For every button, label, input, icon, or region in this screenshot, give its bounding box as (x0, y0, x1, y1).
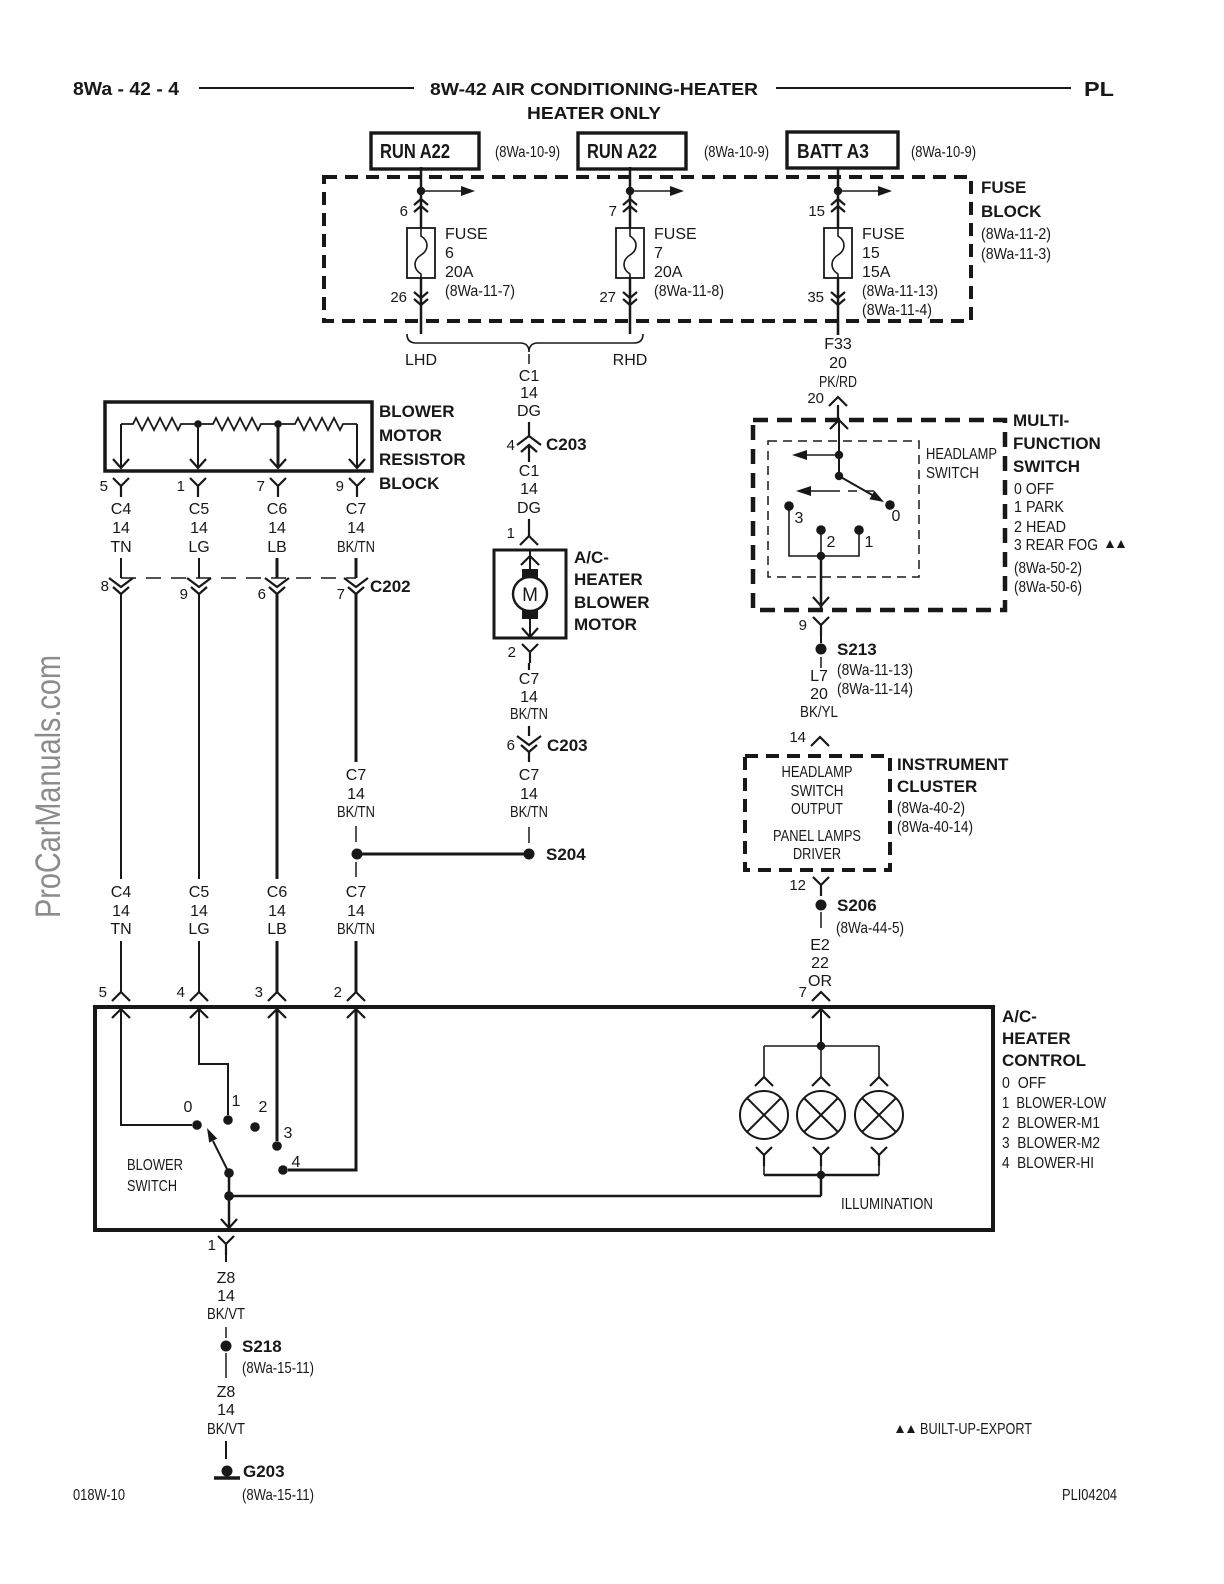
wire fuse 7 to RHD (629, 278, 632, 334)
svg-text:3 REAR FOG: 3 REAR FOG (1014, 537, 1098, 554)
svg-text:1: 1 (208, 1237, 216, 1254)
svg-text:SWITCH: SWITCH (127, 1178, 177, 1195)
wire col4 run to S204 (337, 594, 375, 842)
connector A/C control pin 4 (177, 984, 208, 1018)
svg-text:2 BLOWER-M1: 2 BLOWER-M1 (1002, 1115, 1100, 1132)
svg-text:A/C-: A/C- (574, 548, 609, 567)
svg-text:(8Wa-10-9): (8Wa-10-9) (704, 144, 769, 161)
svg-text:BK/TN: BK/TN (510, 804, 548, 821)
svg-text:6: 6 (258, 586, 266, 603)
wire Z8 14 BK/VT upper (207, 1255, 245, 1338)
svg-text:14: 14 (112, 520, 130, 537)
svg-text:14: 14 (347, 786, 365, 803)
svg-text:8Wa - 42 - 4: 8Wa - 42 - 4 (73, 79, 179, 99)
svg-text:C1: C1 (519, 368, 540, 385)
svg-text:26: 26 (390, 289, 407, 306)
svg-text:(8Wa-11-7): (8Wa-11-7) (445, 283, 515, 300)
svg-text:15: 15 (808, 203, 825, 220)
node dot fuse 7 feed (626, 187, 634, 195)
wire into multi-function switch (837, 405, 839, 420)
svg-text:0: 0 (184, 1099, 193, 1116)
svg-text:C1: C1 (519, 463, 540, 480)
connector blower motor pin 1 (507, 525, 538, 545)
svg-text:BK/TN: BK/TN (337, 804, 375, 821)
svg-text:(8Wa-50-6): (8Wa-50-6) (1014, 579, 1082, 596)
svg-text:M: M (522, 585, 538, 606)
svg-text:S213: S213 (837, 640, 877, 659)
node dot fuse 15 feed (834, 187, 842, 195)
svg-text:7: 7 (337, 586, 345, 603)
headlamp switch inner enclosure (768, 441, 997, 577)
svg-text:A/C-: A/C- (1002, 1007, 1037, 1026)
svg-text:4: 4 (507, 437, 515, 454)
wire C4 14 TN upper (110, 501, 131, 578)
svg-text:BK/VT: BK/VT (207, 1421, 245, 1438)
svg-text:FUSE: FUSE (862, 226, 905, 243)
switch output junction dot (817, 552, 825, 560)
svg-text:C5: C5 (189, 501, 210, 518)
connector resistor pin 5 (100, 478, 129, 497)
svg-text:15: 15 (862, 245, 880, 262)
svg-text:8W-42 AIR CONDITIONING-HEATER: 8W-42 AIR CONDITIONING-HEATER (430, 79, 758, 99)
svg-text:1: 1 (507, 525, 515, 542)
svg-text:3 BLOWER-M2: 3 BLOWER-M2 (1002, 1135, 1100, 1152)
svg-text:C5: C5 (189, 884, 210, 901)
svg-text:MOTOR: MOTOR (574, 615, 637, 634)
svg-text:L7: L7 (810, 668, 828, 685)
wire RUN A22 left to fuse 6 (420, 167, 423, 228)
connector instrument cluster pin 12 (789, 877, 829, 896)
svg-text:G203: G203 (243, 1462, 285, 1481)
blower motor resistor block (105, 402, 466, 493)
svg-text:018W-10: 018W-10 (73, 1487, 125, 1504)
svg-text:1: 1 (865, 534, 874, 551)
svg-text:0: 0 (892, 508, 901, 525)
wire col4 below S204 (337, 862, 375, 992)
svg-text:27: 27 (599, 289, 616, 306)
connector chevrons pin 6 (400, 199, 428, 220)
svg-text:F33: F33 (824, 336, 852, 353)
svg-text:BK/YL: BK/YL (800, 704, 838, 721)
connector A/C control pin 5 (99, 984, 130, 1018)
svg-text:14: 14 (789, 729, 806, 746)
switch output junction (224, 1191, 234, 1201)
ground G203 (214, 1462, 314, 1504)
svg-text:14: 14 (190, 520, 208, 537)
arrow feed continues right (fuse 15) (838, 186, 892, 196)
svg-text:MOTOR: MOTOR (379, 426, 442, 445)
svg-text:3: 3 (255, 984, 263, 1001)
connector C202 pin 8 (101, 578, 133, 595)
header rule left (199, 87, 414, 89)
illumination lamp 3 (855, 1091, 903, 1139)
svg-text:LB: LB (267, 539, 287, 556)
svg-text:ProCarManuals.com: ProCarManuals.com (29, 655, 68, 918)
wire C1 14 DG upper (517, 354, 541, 436)
svg-text:20: 20 (807, 390, 824, 407)
svg-text:14: 14 (217, 1402, 235, 1419)
illumination lamp 2 (797, 1091, 845, 1139)
svg-text:S218: S218 (242, 1337, 282, 1356)
title left page number (73, 79, 179, 99)
svg-text:C4: C4 (111, 501, 132, 518)
svg-text:14: 14 (268, 520, 286, 537)
arrow switch position lower (796, 486, 876, 496)
svg-text:(8Wa-11-13): (8Wa-11-13) (862, 283, 938, 300)
svg-text:INSTRUMENT: INSTRUMENT (897, 755, 1009, 774)
svg-text:C4: C4 (111, 884, 132, 901)
connector A/C control pin 3 (255, 984, 286, 1018)
svg-text:20: 20 (829, 355, 847, 372)
svg-text:FUSE: FUSE (981, 178, 1026, 197)
svg-text:14: 14 (347, 903, 365, 920)
svg-text:20: 20 (810, 686, 828, 703)
blower switch contact 1 (223, 1093, 240, 1125)
svg-text:20A: 20A (445, 264, 474, 281)
wire C6 14 LB lower (267, 884, 288, 992)
svg-text:FUSE: FUSE (445, 226, 488, 243)
svg-text:14: 14 (112, 903, 130, 920)
svg-text:PL: PL (1084, 79, 1114, 101)
connector chevrons pin 35 (807, 289, 845, 306)
switch arm to contact 0 (839, 476, 884, 502)
svg-text:TN: TN (110, 921, 131, 938)
svg-text:1: 1 (177, 478, 185, 495)
svg-text:9: 9 (180, 586, 188, 603)
svg-text:RHD: RHD (613, 352, 648, 369)
arrow feed continues right (fuse 7) (630, 186, 684, 196)
blower switch pivot dot (224, 1168, 234, 1178)
wire fuse 15 down (837, 278, 840, 335)
splice S204 (352, 845, 587, 864)
connector C202 dashed gang line (121, 577, 411, 596)
connector chevrons pin 7 (609, 199, 637, 220)
svg-text:CLUSTER: CLUSTER (897, 777, 977, 796)
wire fuse 6 to LHD (420, 278, 423, 334)
svg-text:MULTI-: MULTI- (1013, 411, 1069, 430)
svg-text:BK/TN: BK/TN (337, 539, 375, 556)
wire lamp top bus (755, 1009, 888, 1086)
svg-text:C202: C202 (370, 577, 411, 596)
svg-text:14: 14 (520, 481, 538, 498)
connector A/C control pin 7 (799, 984, 830, 1018)
connector A/C control pin 2 (334, 984, 365, 1018)
blower switch contact 3 (272, 1125, 292, 1151)
svg-text:RUN A22: RUN A22 (380, 141, 450, 163)
svg-text:OUTPUT: OUTPUT (791, 801, 843, 818)
svg-text:14: 14 (520, 786, 538, 803)
wire C1 14 DG lower (517, 446, 541, 536)
svg-text:Z8: Z8 (217, 1384, 236, 1401)
svg-text:SWITCH: SWITCH (926, 465, 979, 482)
svg-text:S206: S206 (837, 896, 877, 915)
splice S206 (816, 896, 877, 915)
svg-text:C7: C7 (519, 671, 540, 688)
svg-text:5: 5 (100, 478, 108, 495)
switch contact 3 (784, 501, 803, 527)
switch bracket wiring (789, 506, 859, 556)
svg-text:2 HEAD: 2 HEAD (1014, 519, 1066, 536)
title center (430, 79, 758, 123)
svg-text:C7: C7 (519, 767, 540, 784)
svg-text:7: 7 (799, 984, 807, 1001)
wire pin 4 to contact 1 (199, 1009, 228, 1115)
blower switch contact 4 (278, 1154, 300, 1175)
blower motor M1 (494, 548, 650, 638)
switch contact 1 (854, 525, 873, 551)
svg-text:1 BLOWER-LOW: 1 BLOWER-LOW (1002, 1095, 1107, 1112)
svg-text:4 BLOWER-HI: 4 BLOWER-HI (1002, 1155, 1094, 1172)
svg-text:2: 2 (827, 534, 836, 551)
svg-text:BLOWER: BLOWER (127, 1157, 183, 1174)
watermark ProCarManuals.com (29, 655, 68, 918)
wire pin 2 to contact 4 (288, 1009, 356, 1170)
svg-text:(8Wa-11-14): (8Wa-11-14) (837, 681, 913, 698)
fuse block enclosure (324, 177, 1051, 321)
node BATT A3 (787, 132, 976, 168)
connector resistor pin 7 (257, 478, 286, 497)
svg-text:(8Wa-11-3): (8Wa-11-3) (981, 246, 1051, 263)
blower switch arm (207, 1128, 229, 1173)
connector chevrons pin 15 (808, 199, 845, 220)
illumination lamp 1 (740, 1091, 788, 1139)
svg-text:BK/VT: BK/VT (207, 1306, 245, 1323)
svg-text:4: 4 (292, 1154, 301, 1171)
wire C5 14 LG upper (188, 501, 209, 578)
svg-text:1: 1 (232, 1093, 241, 1110)
footer right (1062, 1487, 1117, 1504)
svg-text:TN: TN (110, 539, 131, 556)
svg-text:0 OFF: 0 OFF (1002, 1075, 1046, 1092)
wire C6 14 LB upper (267, 501, 288, 578)
svg-text:(8Wa-11-13): (8Wa-11-13) (837, 662, 913, 679)
connector multi-function switch pin 9 (799, 617, 829, 636)
arrow feed continues right (fuse 6) (421, 186, 475, 196)
header rule right (776, 87, 1071, 89)
connector C203 pin 4 (507, 435, 587, 454)
svg-text:C7: C7 (346, 501, 367, 518)
svg-text:6: 6 (445, 245, 454, 262)
instrument cluster enclosure (745, 755, 1009, 870)
svg-text:22: 22 (811, 955, 829, 972)
fuse F15 15A (824, 226, 938, 319)
svg-text:14: 14 (520, 689, 538, 706)
svg-text:BLOCK: BLOCK (379, 474, 440, 493)
svg-text:1 PARK: 1 PARK (1014, 499, 1064, 516)
connector resistor pin 1 (177, 478, 206, 497)
svg-text:S204: S204 (546, 845, 586, 864)
svg-text:BATT A3: BATT A3 (797, 141, 869, 163)
svg-text:HEADLAMP: HEADLAMP (782, 764, 853, 781)
wire illumination feed (229, 1175, 933, 1213)
svg-text:E2: E2 (810, 937, 830, 954)
svg-text:(8Wa-44-5): (8Wa-44-5) (836, 920, 904, 937)
svg-text:20A: 20A (654, 264, 683, 281)
svg-text:LB: LB (267, 921, 287, 938)
wire col2 long run (198, 594, 200, 879)
tap drop wires with arrows (113, 424, 365, 468)
svg-text:OR: OR (808, 973, 832, 990)
title right PL (1084, 79, 1114, 101)
svg-text:(8Wa-10-9): (8Wa-10-9) (495, 144, 560, 161)
switch contact 0 (885, 500, 900, 525)
svg-text:(8Wa-11-8): (8Wa-11-8) (654, 283, 724, 300)
wire col3 long run (276, 594, 279, 879)
footer left (73, 1487, 125, 1504)
A/C heater control enclosure (95, 1007, 1107, 1230)
svg-text:C6: C6 (267, 884, 288, 901)
svg-text:7: 7 (654, 245, 663, 262)
svg-text:15A: 15A (862, 264, 891, 281)
blower switch contact 0 (184, 1099, 202, 1130)
connector C202 pin 9 (180, 578, 211, 603)
svg-text:(8Wa-10-9): (8Wa-10-9) (911, 144, 976, 161)
blower switch contact 2 (250, 1099, 267, 1132)
wire switch to pin 1 (221, 1173, 237, 1228)
wire col1 long run (120, 594, 122, 879)
svg-text:RESISTOR: RESISTOR (379, 450, 466, 469)
switch feed dot upper (835, 451, 843, 459)
svg-text:LG: LG (188, 921, 209, 938)
svg-text:3: 3 (284, 1125, 293, 1142)
svg-text:14: 14 (268, 903, 286, 920)
svg-text:PANEL LAMPS: PANEL LAMPS (773, 828, 861, 845)
svg-text:HEATER ONLY: HEATER ONLY (527, 103, 661, 123)
svg-text:DG: DG (517, 403, 541, 420)
multi-function switch enclosure (753, 411, 1125, 610)
fuse F7 20A (616, 226, 724, 300)
wire C7 14 BK/TN below motor (510, 663, 548, 736)
wire C7 14 BK/TN upper (337, 501, 375, 578)
svg-text:9: 9 (799, 617, 807, 634)
svg-text:35: 35 (807, 289, 824, 306)
blower switch label (127, 1157, 183, 1195)
svg-text:(8Wa-11-2): (8Wa-11-2) (981, 226, 1051, 243)
node RUN A22 (left) (371, 133, 560, 169)
node RUN A22 (right) (578, 133, 769, 169)
connector C202 pin 6 (258, 578, 289, 603)
connector resistor pin 9 (336, 478, 365, 497)
svg-text:DG: DG (517, 500, 541, 517)
svg-text:5: 5 (99, 984, 107, 1001)
wire feed inside switch (830, 420, 848, 476)
svg-text:9: 9 (336, 478, 344, 495)
wire C4 14 TN lower (110, 884, 131, 992)
svg-text:HEATER: HEATER (1002, 1029, 1071, 1048)
svg-text:LHD: LHD (405, 352, 437, 369)
wire F33 20 PK/RD (819, 321, 857, 391)
wire BATT A3 to fuse 15 (837, 168, 840, 228)
wire pin 3 to contact 3 (276, 1009, 279, 1141)
svg-text:Z8: Z8 (217, 1270, 236, 1287)
resistor element chain (121, 418, 357, 430)
connector blower motor pin 2 (508, 644, 538, 663)
connector C202 pin 7 (337, 578, 368, 603)
svg-text:C7: C7 (346, 884, 367, 901)
svg-text:C6: C6 (267, 501, 288, 518)
connector instrument cluster pin 14 (789, 729, 829, 746)
svg-text:HEATER: HEATER (574, 570, 643, 589)
svg-text:2: 2 (508, 644, 516, 661)
svg-text:(8Wa-40-14): (8Wa-40-14) (897, 819, 973, 836)
svg-text:14: 14 (190, 903, 208, 920)
switch output wire (813, 556, 829, 608)
brace LHD/RHD merge (405, 334, 647, 369)
svg-text:2: 2 (259, 1099, 268, 1116)
wire lamp bottom bus (756, 1147, 887, 1179)
node dot fuse 6 feed (417, 187, 425, 195)
svg-text:(8Wa-15-11): (8Wa-15-11) (242, 1487, 314, 1504)
svg-text:(8Wa-11-4): (8Wa-11-4) (862, 302, 932, 319)
svg-text:BK/TN: BK/TN (510, 706, 548, 723)
svg-text:PK/RD: PK/RD (819, 374, 857, 391)
svg-text:C7: C7 (346, 767, 367, 784)
svg-text:6: 6 (507, 737, 515, 754)
wire C7 14 BK/TN to S204 (510, 752, 548, 843)
wire C5 14 LG lower (188, 884, 209, 992)
note built-up-export (896, 1421, 1032, 1438)
switch contact 2 (816, 525, 835, 551)
svg-text:(8Wa-50-2): (8Wa-50-2) (1014, 560, 1082, 577)
svg-text:2: 2 (334, 984, 342, 1001)
svg-text:(8Wa-15-11): (8Wa-15-11) (242, 1360, 314, 1377)
svg-text:BLOWER: BLOWER (379, 402, 455, 421)
wire pin 5 to contact 0 (121, 1009, 192, 1125)
wire to S213 (820, 636, 822, 643)
svg-text:8: 8 (101, 578, 109, 595)
svg-text:BUILT-UP-EXPORT: BUILT-UP-EXPORT (920, 1421, 1032, 1438)
svg-text:FUSE: FUSE (654, 226, 697, 243)
connector A/C control pin 1 (208, 1236, 234, 1255)
wire Z8 14 BK/VT lower (207, 1353, 314, 1459)
wire RUN A22 right to fuse 7 (629, 167, 632, 228)
svg-text:HEADLAMP: HEADLAMP (926, 446, 997, 463)
svg-text:BLOWER: BLOWER (574, 593, 650, 612)
svg-text:7: 7 (257, 478, 265, 495)
svg-text:14: 14 (347, 520, 365, 537)
resistor tap dot 1 (194, 420, 202, 428)
svg-text:3: 3 (795, 510, 804, 527)
svg-text:RUN A22: RUN A22 (587, 141, 657, 163)
wire L7 20 BK/YL (800, 657, 913, 721)
arrow switch position upper (792, 450, 839, 460)
svg-text:PLI04204: PLI04204 (1062, 1487, 1117, 1504)
svg-text:12: 12 (789, 877, 806, 894)
svg-text:7: 7 (609, 203, 617, 220)
svg-text:0 OFF: 0 OFF (1014, 481, 1054, 498)
svg-text:14: 14 (520, 385, 538, 402)
svg-text:(8Wa-40-2): (8Wa-40-2) (897, 800, 965, 817)
resistor tap dot 2 (274, 420, 282, 428)
svg-text:ILLUMINATION: ILLUMINATION (841, 1196, 933, 1213)
svg-text:SWITCH: SWITCH (1013, 457, 1080, 476)
svg-text:4: 4 (177, 984, 185, 1001)
wire E2 22 OR (808, 912, 904, 990)
svg-text:CONTROL: CONTROL (1002, 1051, 1086, 1070)
splice S218 (221, 1337, 282, 1356)
svg-text:C203: C203 (547, 736, 588, 755)
fuse F6 20A (407, 226, 515, 300)
svg-text:C203: C203 (546, 435, 587, 454)
svg-text:FUNCTION: FUNCTION (1013, 434, 1101, 453)
switch pivot dot (835, 472, 843, 480)
splice S213 (816, 640, 877, 659)
connector C203 pin 6 (507, 736, 588, 755)
svg-text:LG: LG (188, 539, 209, 556)
connector chevrons pin 27 (599, 289, 637, 306)
svg-text:BK/TN: BK/TN (337, 921, 375, 938)
svg-text:DRIVER: DRIVER (793, 846, 841, 863)
